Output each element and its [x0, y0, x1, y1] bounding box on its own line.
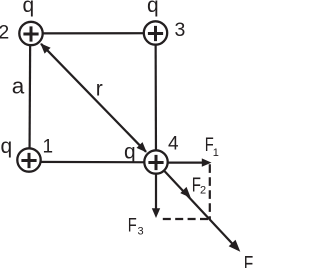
- svg-text:2: 2: [0, 22, 9, 44]
- label F3: [128, 216, 144, 238]
- svg-text:a: a: [12, 73, 25, 98]
- svg-text:r: r: [96, 78, 103, 101]
- svg-text:q: q: [23, 0, 35, 17]
- svg-text:2: 2: [200, 185, 206, 197]
- label F2: [192, 175, 206, 197]
- svg-text:1: 1: [213, 147, 219, 159]
- wire: right side of square (3 to 4): [155, 33, 158, 162]
- arrow F: resultant force diagonal from charge 4: [156, 162, 240, 252]
- arrowhead F2: force vector tip on the diagonal: [180, 187, 191, 198]
- dashed line: vertical component construction line: [209, 164, 211, 220]
- charge 1 circle (bottom-left): [17, 148, 40, 171]
- svg-text:q: q: [124, 141, 136, 164]
- charge 2 plus sign: [23, 26, 38, 41]
- arrow F3: vertical force vector from charge 4: [152, 162, 160, 218]
- arrow F1: horizontal force vector from charge 4: [156, 158, 212, 166]
- svg-text:q: q: [147, 0, 159, 17]
- dashed line: horizontal component construction line: [163, 218, 210, 220]
- svg-text:F: F: [128, 216, 137, 237]
- svg-text:q: q: [1, 135, 13, 158]
- charge 4 plus sign: [148, 155, 163, 170]
- charge 4 circle (bottom-right): [144, 150, 167, 173]
- svg-text:3: 3: [138, 225, 144, 237]
- wire: top side of square (2 to 3): [31, 32, 156, 34]
- svg-text:4: 4: [168, 134, 179, 155]
- charge 3 circle (top-right): [144, 21, 167, 44]
- label F1: [205, 135, 219, 159]
- svg-text:1: 1: [43, 137, 54, 158]
- wire: left side of square (2 to 1): [28, 34, 31, 161]
- wire: bottom side of square (1 to 4): [29, 161, 156, 164]
- charge 1 plus sign: [21, 153, 36, 168]
- charge 3 plus sign: [148, 26, 163, 41]
- svg-text:F: F: [244, 253, 253, 268]
- svg-text:3: 3: [175, 19, 186, 41]
- arrow r: double-headed diagonal between charge 2 and charge 4: [40, 43, 147, 152]
- charge 2 circle (top-left): [19, 22, 42, 45]
